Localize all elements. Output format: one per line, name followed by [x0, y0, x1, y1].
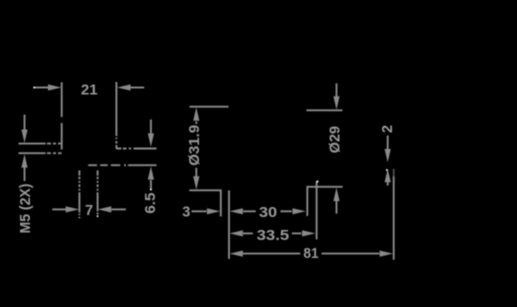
dim 2 upper shaft — [387, 136, 389, 150]
arrowhead M5 up — [21, 154, 27, 167]
dim 6.5 lower shaft — [150, 180, 152, 190]
part top edge 29 — [306, 109, 342, 111]
arrowhead 2 up — [385, 169, 391, 182]
dim 21 right shaft — [130, 87, 144, 89]
dim dia31.9 bottom shaft — [195, 168, 197, 177]
svg-text:2: 2 — [380, 125, 396, 133]
arrowhead dia31.9 down — [193, 176, 199, 189]
svg-text:33.5: 33.5 — [257, 228, 290, 244]
M5 hole lower line — [19, 152, 62, 154]
arrowhead 3 right — [207, 208, 220, 214]
M5 upper arrow shaft — [24, 115, 26, 130]
svg-text:21: 21 — [81, 83, 98, 99]
arrowhead dia29 up — [333, 188, 339, 201]
arrowhead 81 right — [380, 251, 393, 257]
extension line 33.5 right — [316, 182, 318, 240]
hidden line 7 left — [78, 170, 80, 218]
arrowhead 33.5 left — [230, 230, 243, 236]
svg-text:Ø29: Ø29 — [328, 126, 344, 153]
arrowhead 7 right — [98, 206, 111, 212]
arrowhead M5 down — [21, 130, 27, 143]
svg-text:6.5: 6.5 — [143, 193, 159, 214]
dim 21 line left shaft — [34, 87, 49, 89]
arrowhead 6.5 down — [148, 133, 154, 146]
dim 7 left shaft — [52, 208, 66, 210]
arrowhead 7 left — [66, 206, 79, 212]
dim dia29 top shaft — [336, 83, 338, 96]
vertex dot 6.5 shaft — [150, 189, 152, 191]
arrowhead 30 right — [293, 208, 306, 214]
arrowhead 2 down — [385, 149, 391, 162]
svg-text:3: 3 — [182, 205, 190, 221]
extension line right of 21 — [115, 82, 117, 148]
arrowhead 81 left — [230, 251, 243, 257]
dim 6.5 upper shaft — [150, 120, 152, 134]
dim 33.5 right shaft — [292, 232, 302, 234]
part step corner right — [307, 187, 342, 216]
extension line 81 right faint top — [393, 169, 395, 177]
part bottom edge 31.9 with corner — [189, 190, 221, 216]
M5 hole upper line — [19, 143, 62, 145]
hidden line 7 right — [97, 170, 99, 214]
arrowhead 21 right — [117, 84, 130, 90]
vertex dot 33.5 ext — [317, 181, 319, 183]
arrowhead 30 left — [230, 208, 243, 214]
svg-text:81: 81 — [303, 246, 318, 262]
arrowhead 6.5 up — [148, 166, 154, 179]
dim 81 left shaft — [243, 253, 300, 255]
arrowhead dia31.9 up — [193, 107, 199, 120]
part bottom edge left view — [88, 164, 156, 166]
dim 81 right shaft — [322, 253, 380, 255]
part top edge 31.9 — [190, 106, 229, 108]
svg-text:M5 (2X): M5 (2X) — [18, 183, 34, 233]
extension line 81 right — [393, 177, 395, 260]
svg-text:30: 30 — [259, 205, 277, 221]
vertex dot 2 arrow — [386, 169, 388, 171]
M5 lower arrow shaft — [24, 168, 26, 182]
vertex dot 7 line — [97, 215, 99, 217]
arrowhead 33.5 right — [302, 230, 315, 236]
extension line 3-30-33.5-81 left — [228, 190, 230, 259]
dim 30 left shaft — [243, 210, 256, 212]
dim 30 right shaft — [280, 210, 291, 212]
dim dia29 bottom shaft — [336, 201, 338, 214]
arrowhead 21 left — [48, 84, 61, 90]
part top edge left view — [116, 148, 157, 150]
dim 2 lower shaft — [387, 182, 389, 186]
dim 3 shaft — [192, 210, 207, 212]
vertex dot 21 shaft — [33, 87, 35, 89]
svg-text:Ø31.9: Ø31.9 — [187, 125, 203, 166]
dim dia31.9 top shaft — [195, 122, 197, 125]
extension line left of 21 — [61, 82, 63, 149]
arrowhead dia29 down — [333, 96, 339, 109]
dim 7 right shaft — [112, 208, 126, 210]
svg-text:7: 7 — [85, 203, 93, 219]
dim 33.5 left shaft — [243, 232, 253, 234]
